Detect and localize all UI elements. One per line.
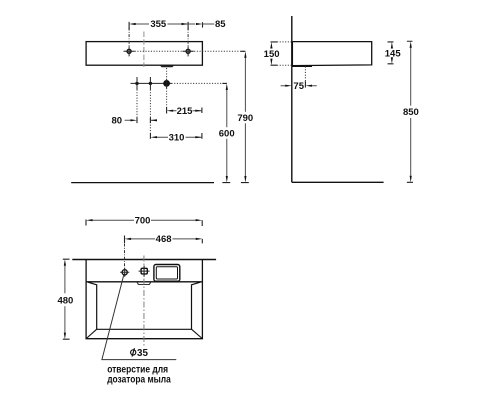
svg-text:480: 480	[57, 296, 73, 307]
floor line side view	[292, 181, 384, 183]
dim 355	[129, 22, 188, 30]
svg-text:80: 80	[112, 116, 123, 127]
svg-text:310: 310	[169, 132, 185, 143]
hole centerline left vertical	[128, 28, 130, 47]
dim 850	[407, 41, 413, 182]
dim 75	[304, 81, 306, 87]
hole centerline right vertical	[187, 28, 189, 47]
plan centerline	[143, 256, 145, 346]
svg-text:215: 215	[177, 106, 194, 117]
diameter symbol	[131, 350, 136, 355]
dot 2	[149, 82, 152, 85]
svg-text:468: 468	[156, 234, 172, 245]
mounting hole left	[127, 49, 131, 53]
dim 80	[137, 118, 150, 124]
dotted drain vertical	[304, 67, 306, 83]
dim 700	[86, 220, 202, 227]
dim 150	[271, 42, 278, 65]
connection dots row	[131, 82, 172, 84]
svg-text:145: 145	[385, 48, 402, 59]
floor line front view	[71, 182, 214, 184]
svg-text:85: 85	[215, 19, 226, 30]
bowl corner diagonal left	[86, 329, 96, 338]
dotted extension bottom (150)	[277, 64, 292, 66]
wall line	[291, 16, 293, 182]
dim 600 vertical	[222, 83, 230, 182]
soap hole centerline vertical	[124, 244, 126, 269]
svg-text:дозатора мыла: дозатора мыла	[107, 374, 171, 385]
overflow tab on deck	[137, 282, 151, 284]
svg-text:75: 75	[293, 81, 304, 92]
dim 310	[150, 133, 202, 139]
plan outer rect	[86, 260, 202, 339]
soap dispenser hole	[122, 270, 127, 275]
mounting hole right	[186, 49, 190, 53]
svg-text:355: 355	[150, 19, 167, 30]
centerline of basin front	[143, 32, 145, 68]
dim 480	[63, 259, 70, 339]
svg-text:850: 850	[403, 107, 419, 118]
dim 145	[388, 42, 394, 64]
svg-text:790: 790	[237, 113, 253, 124]
overflow box inner	[156, 267, 177, 279]
drain tab under basin	[160, 65, 174, 67]
dotted extension top (150)	[277, 41, 292, 43]
svg-text:150: 150	[264, 49, 280, 60]
dim 215	[167, 107, 202, 114]
wall line plan	[72, 259, 216, 261]
overflow box outer	[154, 265, 180, 282]
deck line	[86, 281, 202, 283]
bracket thick segment	[292, 65, 312, 67]
bowl corner diagonal right	[192, 329, 203, 338]
svg-text:700: 700	[135, 215, 151, 226]
svg-text:600: 600	[219, 128, 235, 139]
dim 85	[202, 22, 204, 27]
dim 468	[125, 236, 203, 244]
basin side profile	[292, 42, 371, 66]
basin body front outline	[86, 42, 202, 66]
svg-text:35: 35	[137, 348, 148, 359]
faucet square hole	[141, 268, 147, 274]
leader line to soap hole	[102, 275, 176, 359]
dot 1	[135, 82, 138, 85]
dotted hole axis horizontal to 790 line	[135, 50, 246, 52]
bowl outline	[88, 282, 200, 329]
dim 790 vertical	[241, 51, 249, 182]
big drain dot	[163, 80, 170, 87]
